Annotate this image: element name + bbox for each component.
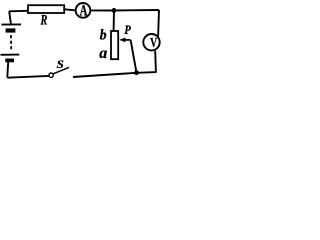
svg-text:b: b bbox=[100, 28, 107, 44]
svg-text:R: R bbox=[40, 13, 48, 29]
svg-text:P: P bbox=[124, 22, 131, 37]
svg-text:a: a bbox=[99, 45, 107, 62]
svg-text:V: V bbox=[150, 36, 157, 51]
svg-text:S: S bbox=[57, 57, 65, 71]
svg-text:A: A bbox=[80, 2, 88, 19]
